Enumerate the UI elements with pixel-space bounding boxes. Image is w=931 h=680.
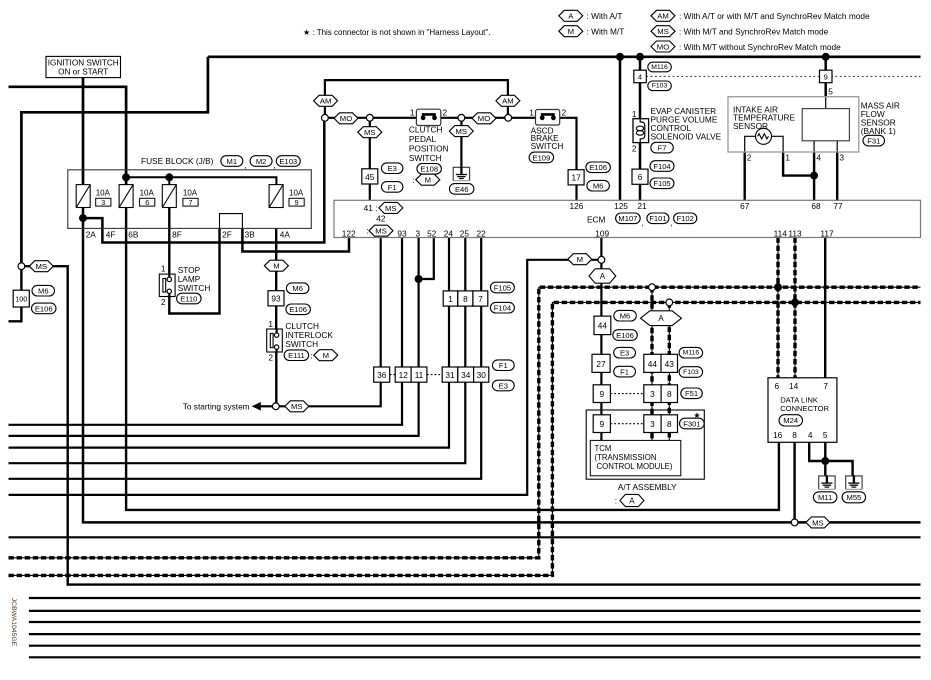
wire: ECM 114 drop [777,238,779,378]
junction circle 3 [458,114,465,121]
svg-text:5: 5 [828,87,833,97]
dlc pin 5 [823,430,828,440]
svg-text:: With M/T without SynchroRev: : With M/T without SynchroRev Match mode [679,42,841,52]
svg-text:F101: F101 [649,214,666,223]
ecm comma 2 [671,218,673,228]
svg-text:3: 3 [650,419,655,429]
svg-text:6B: 6B [128,230,139,240]
colon E111 [311,351,313,361]
svg-text::: : [615,496,617,506]
connector F105 [650,178,674,189]
svg-text:122: 122 [342,228,356,238]
svg-text:67: 67 [740,201,750,211]
stop lamp pin 1 [161,264,166,274]
svg-text:SWITCH: SWITCH [409,153,442,163]
connector M6 at 93 [286,283,309,294]
svg-text:MS: MS [657,27,669,36]
svg-text:2: 2 [562,107,567,117]
dlc pin 4 [808,430,813,440]
svg-text:F7: F7 [658,144,667,153]
svg-text:31: 31 [445,370,455,380]
junction: CAN-H DLC splice [774,283,782,291]
svg-text:4: 4 [816,153,821,163]
svg-text:2: 2 [443,107,448,117]
connector E106 at 93 [286,304,311,315]
wire: ECM 3 to page-left [9,238,419,436]
wire: ignition power bus (top) [208,55,921,58]
svg-text:ON or START: ON or START [58,68,108,77]
legend hexagon MS [651,26,675,37]
svg-text:CONNECTOR: CONNECTOR [780,404,829,413]
svg-text:F105: F105 [653,179,670,188]
connector 93 box [268,291,284,306]
wire: to starting system branch [260,405,273,407]
wire: ECM 117 to DLC 7 [824,238,826,378]
connector M55 [842,492,866,503]
connector 31 box [442,367,458,382]
wire: bus to MAF pin5 [824,57,827,97]
svg-text:3: 3 [839,153,844,163]
ecm pin 126 [569,201,583,211]
junction circle 4 [505,114,512,121]
svg-text:2: 2 [268,353,273,363]
wire: MAF pin3 internal [836,141,838,152]
DLC box [768,378,837,443]
svg-text:3: 3 [650,389,655,399]
ecm pin 122 [342,228,356,238]
svg-text:9: 9 [295,198,299,207]
star F301 [693,411,700,420]
wire: bottom bus 4 [29,633,921,635]
fuse 10A 9 [269,185,304,208]
ascd pin 1 [529,107,534,117]
EVAP solenoid valve [633,119,649,143]
terminal 3B [245,230,256,240]
wire: DLC 5 to ground M11 [824,441,826,476]
wire: MS drop to ground E46 [460,121,462,167]
connector E111 [284,350,309,361]
svg-text:M116: M116 [683,350,700,357]
wire: ECM 52 joins wire 3 [419,238,434,280]
svg-text:F103: F103 [683,369,699,376]
svg-text:M55: M55 [847,493,862,502]
hexagon A 109 [589,269,616,283]
fuse 10A 7 [162,185,198,208]
stop lamp switch [159,274,175,296]
connector E46 [449,184,474,195]
connector F103 can [679,367,703,378]
evap pin 1 [632,109,637,119]
svg-text:114: 114 [774,228,788,238]
wire: 3B to ECM 122 [242,228,349,251]
legend text with A/T [587,11,623,21]
svg-text:2: 2 [632,143,637,153]
svg-text:M11: M11 [818,493,832,502]
svg-text:21: 21 [637,201,647,211]
maf pin 3 [839,153,844,163]
connector 45 box [362,169,378,184]
connector 3 box can [644,385,661,403]
fuse block notch [220,214,243,229]
svg-text:25: 25 [460,228,470,238]
legend text AM [679,11,870,21]
wire: bus drop to left feeder [21,57,208,263]
svg-text:5: 5 [823,430,828,440]
junction: fuse 3 output split [79,214,87,222]
svg-text:68: 68 [811,201,821,211]
svg-text:AM: AM [320,97,332,106]
svg-text:36: 36 [377,370,387,380]
connector 44 box can [644,354,661,372]
svg-text:11: 11 [415,370,424,380]
connector E108 [417,164,442,175]
svg-text:3: 3 [415,228,420,238]
wire: CAN-H to TCM [651,287,653,440]
svg-text:93: 93 [397,228,407,238]
legend text MO [679,42,841,52]
terminal 6B [128,230,139,240]
connector 9 box upper [593,385,610,403]
connector E110 [177,293,202,304]
terminal 2F [222,230,232,240]
connector F104 row1 [490,302,514,313]
hexagon MO 1 [334,113,358,124]
wire: ECM 113 drop [794,238,796,378]
svg-text:4: 4 [808,430,813,440]
ecm pin 125 [614,201,628,211]
wire: interlock junction to ECM 42 [279,238,381,407]
to starting system label [183,401,250,411]
svg-text:(TRANSMISSION: (TRANSMISSION [595,453,657,462]
svg-text:1: 1 [448,294,453,304]
svg-text:JCBWA1045GE: JCBWA1045GE [10,598,17,647]
connector E3 at 27 [614,347,636,358]
svg-text:M107: M107 [618,214,637,223]
svg-text:3: 3 [101,198,105,207]
ecm pin 93 [397,228,407,238]
svg-text:8: 8 [463,294,468,304]
svg-text:F104: F104 [653,162,670,171]
svg-text:IGNITION SWITCH: IGNITION SWITCH [48,59,119,68]
connector F301 [680,418,705,429]
hexagon M at 4A [264,260,288,271]
connector M107 [616,213,641,224]
svg-text:A: A [600,272,606,281]
hexagon MS ecm42 [369,225,393,236]
wire: bottom bus 5 [29,645,921,647]
wire: bus to ECM 125 [619,57,622,201]
stop lamp pin 2 [161,297,166,307]
wire: ASCD pin2 to ECM 126 [557,118,577,201]
junction circle CAN-L [666,299,673,306]
junction: bus dot MAF [822,53,830,61]
wire: stop lamp switch to 2F [169,228,219,313]
connector F104 [650,161,674,172]
svg-text:CLUTCH: CLUTCH [409,125,443,135]
wire: bottom bus 1 [29,597,921,599]
svg-text:6: 6 [774,381,779,391]
connector 8 box row1 [458,291,473,306]
svg-text:CONTROL MODULE): CONTROL MODULE) [597,462,673,471]
wire: MO chain clutch pedal switch pin1 [328,117,419,119]
terminal 4A [280,230,291,240]
svg-text:M: M [577,255,583,264]
svg-text:125: 125 [614,201,628,211]
svg-text:1: 1 [632,109,637,119]
svg-text:F102: F102 [677,214,694,223]
wire: shielded line 2 (ECM 113 CAN-L) [9,302,921,575]
connector M1 [221,156,243,167]
wire: battery feed from page-left to fuse block [9,87,127,185]
junction: bus dot 21 [636,53,644,61]
connector E106 at 17 [586,162,611,173]
connector 9 box [820,70,833,83]
svg-text:41 :: 41 : [364,203,378,213]
svg-text:100: 100 [15,295,27,304]
comma 2 [274,160,276,170]
legend hexagon M [559,26,583,37]
svg-text:MS: MS [375,227,387,236]
connector 4 box [634,70,647,83]
connector E103 [276,156,300,167]
connector E109 [529,152,554,163]
ecm pin 113 [788,228,802,238]
svg-text:E109: E109 [533,153,551,162]
svg-text:M6: M6 [38,287,49,296]
connector M6 at 17 [587,180,610,191]
wire: DLC 8 to MS bus [793,441,795,519]
ecm pin 109 [595,228,609,238]
connector E106 at 44 [613,330,638,341]
svg-text:E3: E3 [499,381,508,390]
svg-text:M6: M6 [292,284,303,293]
interlock pin 2 [268,353,273,363]
connector F51 [681,388,703,399]
svg-text:10A: 10A [96,189,111,198]
svg-text:27: 27 [596,359,606,369]
svg-text:SOLENOID VALVE: SOLENOID VALVE [651,132,722,142]
svg-text:12: 12 [399,370,409,380]
junction circle 109 [598,256,605,263]
svg-text:M: M [323,351,329,360]
svg-text:★ : This connector is not show: ★ : This connector is not shown in "Harn… [303,28,490,37]
connector F7 [651,142,674,153]
svg-text:(BANK 1): (BANK 1) [861,126,896,136]
svg-text:117: 117 [820,228,834,238]
svg-text:DATA LINK: DATA LINK [780,395,818,404]
svg-text:126: 126 [569,201,583,211]
MASS AIR FLOW label [861,100,900,136]
ecm pin 77 [833,201,843,211]
svg-text:MS: MS [456,127,468,136]
evap pin 2 [632,143,637,153]
svg-text:E110: E110 [180,294,197,303]
wire: ASCD brake switch pin1 stub [512,117,538,119]
wire: 8F to stop lamp switch [168,208,170,278]
ecm pin 24 [444,228,454,238]
hexagon A AT [620,494,644,506]
connector E3 at 45 [381,163,403,174]
dotted link 9-3 [610,393,643,395]
note: star connector footnote [303,28,490,37]
svg-text:44: 44 [648,359,658,369]
hexagon AM 1 [314,95,338,106]
connector 6 box [632,169,648,184]
svg-text:M: M [568,27,574,36]
comma 1 [245,160,247,170]
TCM box [590,440,681,475]
ecm pin 114 [774,228,788,238]
svg-text:E106: E106 [289,305,307,314]
svg-text:SWITCH: SWITCH [178,283,211,293]
connector M11 [813,492,837,503]
hexagon MS 41 [358,127,382,138]
clutch interlock label [285,321,333,349]
svg-text:77: 77 [833,201,843,211]
svg-text:F301: F301 [683,419,700,428]
dlc pin 16 [773,430,783,440]
legend hexagon A [559,10,583,21]
wire: IAT pin2 to ECM 67 [744,152,746,200]
clutch interlock switch [267,329,283,352]
wire: MAF pin4 internal [813,141,815,152]
connector 1 box [443,291,458,306]
ecm pin 21 [637,201,647,211]
svg-text:F104: F104 [494,304,511,313]
dotted: connector boundary M116/F103 [646,75,920,77]
ECM box [334,200,921,237]
connector 8 box inner [661,415,677,433]
maf pin 4 [816,153,821,163]
ecm pin 25 [460,228,470,238]
svg-text:6: 6 [638,172,643,182]
junction: DLC ground splice [821,457,829,465]
dotted link 36-12 [390,374,396,376]
connector M24 [779,415,803,426]
svg-text:9: 9 [599,419,604,429]
DLC label [780,395,829,413]
wire: ECM 93 to page-left [9,238,403,425]
wire: clutch pedal switch pin2 to ASCD [438,117,505,119]
svg-text:ECM: ECM [587,214,606,224]
svg-text:: With M/T and SynchroRev Matc: : With M/T and SynchroRev Match mode [679,27,829,37]
connector F103 top [648,81,672,91]
connector E3 row2 [492,380,514,391]
junction: fuse feed dot 1 [122,173,130,181]
connector M6 at 100 [32,285,55,296]
svg-text:M: M [273,262,279,271]
connector 17 box [568,170,584,185]
dlc pin 6 [774,381,779,391]
connector 36 box [374,367,390,382]
ecm pin 68 [811,201,821,211]
ecm pin 22 [476,228,486,238]
A/T assembly box [586,410,704,479]
svg-text:AM: AM [502,97,514,106]
MAF element box [802,109,849,141]
svg-text:8: 8 [667,389,672,399]
svg-text::: : [413,175,415,185]
svg-text:,: , [642,218,644,228]
wire: CAN-L to TCM [668,302,670,440]
svg-text:: With A/T or with M/T and Syn: : With A/T or with M/T and SynchroRev Ma… [679,11,870,21]
connector 7 box [473,291,488,306]
wire: DLC 4 to ground join [809,441,825,461]
cpp pin 2 [443,107,448,117]
connector F101 [647,213,669,224]
svg-text:E106: E106 [35,304,53,313]
maf pin 2 [747,153,752,163]
colon AT [615,496,617,506]
hexagon MS bus [806,517,830,528]
EVAP label [651,106,722,142]
svg-text:8: 8 [792,430,797,440]
terminal 8F [172,230,182,240]
dlc pin 8 [792,430,797,440]
svg-text:42: 42 [376,214,386,224]
wire: splice to ground M55 [825,461,852,476]
svg-text:10A: 10A [140,189,155,198]
svg-text:E108: E108 [420,165,438,174]
svg-text:MS: MS [36,262,48,271]
hexagon MO 2 [472,113,496,124]
ecm colon 42 [366,226,368,236]
svg-text:43: 43 [665,359,675,369]
connector 12 box [395,367,411,382]
connector F1 at 45 [381,182,403,193]
connector 3 box inner [644,415,661,433]
svg-text:93: 93 [271,294,281,304]
hexagon AM 2 [496,95,520,106]
doc number [10,598,17,647]
stop lamp switch label [178,265,211,293]
hexagon MS ecm41 [379,202,403,213]
junction circle 2 [366,114,373,121]
wire: M/T branch of 109 [9,260,599,495]
junction: 3/52 splice [415,275,423,283]
svg-text:52: 52 [427,228,437,238]
wire: ECM 109 to TCM [600,238,602,441]
svg-text:F1: F1 [620,368,629,377]
svg-text:A/T ASSEMBLY: A/T ASSEMBLY [618,482,677,492]
ground M55 [846,475,862,489]
svg-text:POSITION: POSITION [409,144,449,154]
svg-text:1: 1 [410,107,415,117]
svg-text:F105: F105 [494,283,511,292]
svg-text:F1: F1 [388,183,397,192]
ASCD brake switch [536,110,560,126]
fuse 10A 3 [76,185,111,208]
wire: MS splice chain to right margin [25,266,921,584]
ecm pin 41 label [364,203,378,213]
wire: clutch interlock sw to junction [275,349,277,403]
dlc pin 14 [789,381,799,391]
fuse 10A 6 [119,185,155,208]
svg-text:10A: 10A [289,189,304,198]
svg-text:16: 16 [773,430,783,440]
svg-text:,: , [671,218,673,228]
terminal 4F [106,230,116,240]
dotted link 9-3 inner [610,423,643,425]
svg-text:113: 113 [788,228,802,238]
ecm comma 1 [642,218,644,228]
svg-text:7: 7 [478,294,483,304]
junction circle CAN-H [649,284,656,291]
wire: bus through EVAP solenoid to ECM 21 [639,57,642,201]
svg-text:6: 6 [145,198,149,207]
svg-text:AM: AM [657,12,669,21]
connector 100 box [13,290,29,307]
